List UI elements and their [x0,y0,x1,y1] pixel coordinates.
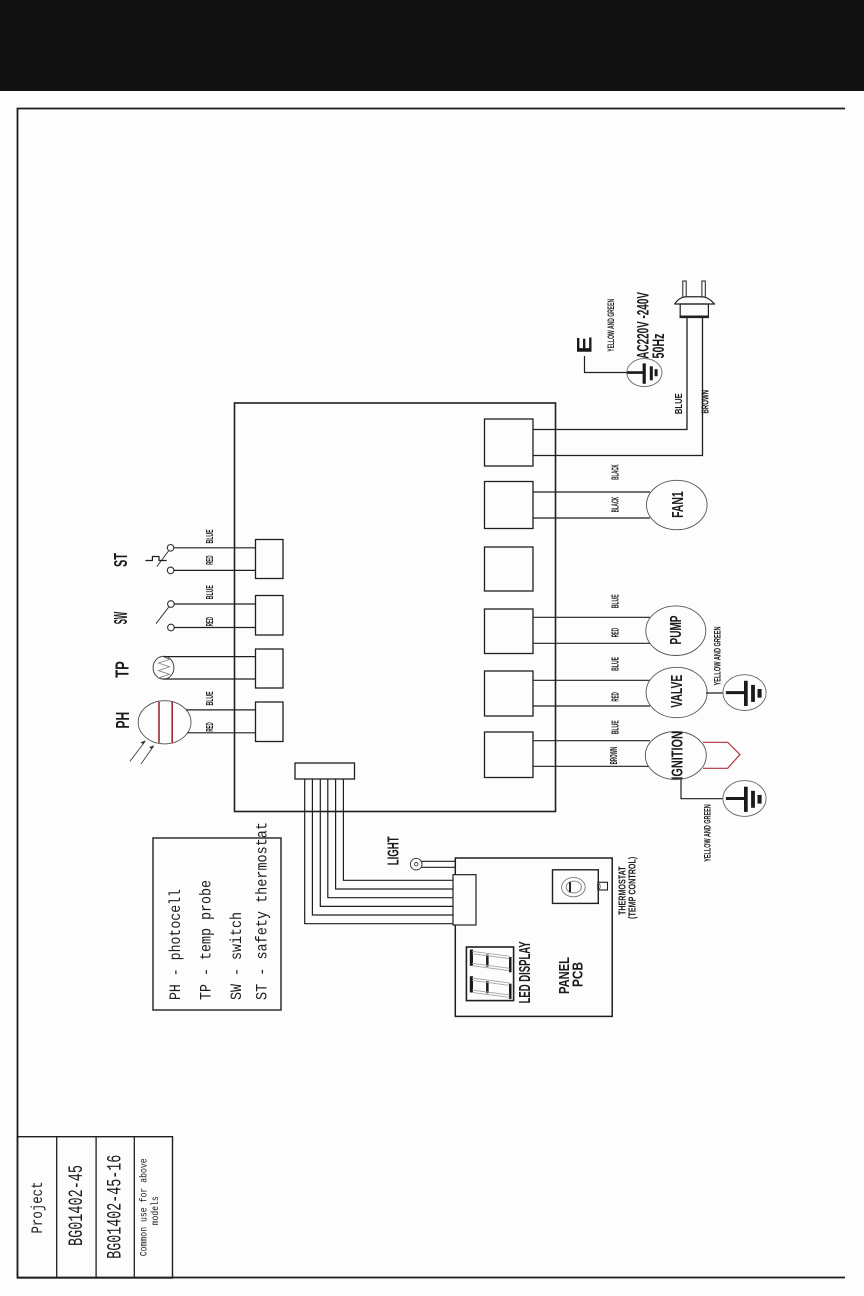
label BLUE (SW) [205,585,216,599]
label PANEL PCB [556,957,587,994]
svg-text:RED: RED [205,722,216,731]
label BLACK 2 [611,496,622,512]
connector pump [485,609,534,654]
label RED (SW) [205,617,216,626]
label BLUE (ignition) [611,720,622,734]
switch SW [156,601,174,631]
wire ignition brown [533,765,650,767]
svg-text:SW: SW [110,612,131,625]
legend text [167,822,272,1000]
photocell PH [130,701,191,764]
wire E to earth [585,356,628,373]
wire fan black 1 [533,491,650,493]
label BLUE (valve) [611,657,622,671]
label E [573,337,597,354]
connector valve [485,671,534,716]
spark electrode (red) [703,742,740,768]
label SW [110,612,131,625]
svg-text:BROWN: BROWN [609,747,620,765]
wire valve earth [706,692,724,694]
svg-text:Project: Project [29,1182,47,1234]
legend box [153,838,281,1010]
svg-text:BLACK: BLACK [611,496,622,512]
motor PUMP [646,606,706,656]
connector TP [256,649,284,688]
svg-text:E: E [573,337,597,354]
svg-text:Common use for above: Common use for above [139,1158,151,1256]
svg-text:BG01402-45-16: BG01402-45-16 [105,1155,128,1259]
label YELLOW AND GREEN (valve) [713,626,724,685]
ground ignition [723,781,766,817]
wire PH blue [186,709,256,711]
label YELLOW AND GREEN (earth) [606,299,617,352]
connector SW [256,596,284,636]
wire pump red [533,642,650,644]
wire PH red [187,732,256,734]
safety thermostat ST [145,545,174,574]
connector power [485,419,534,466]
wire valve blue [533,679,650,681]
title block table [17,1137,172,1278]
svg-text:ST - safety thermostat: ST - safety thermostat [254,822,272,1000]
wire valve red [533,705,650,707]
svg-text:YELLOW AND GREEN: YELLOW AND GREEN [713,626,724,685]
svg-text:BLUE: BLUE [205,691,216,705]
svg-text:PH: PH [112,712,133,729]
svg-text:PH - photocell: PH - photocell [167,889,185,1000]
label BLUE (pump) [611,594,622,608]
svg-text:BLUE: BLUE [205,585,216,599]
label PH [112,712,133,729]
svg-text:YELLOW AND GREEN: YELLOW AND GREEN [606,299,617,352]
wire SW blue [174,603,256,605]
svg-text:BLACK: BLACK [611,464,622,480]
connector PH [256,702,284,742]
label BLUE (PH) [205,691,216,705]
label LIGHT [385,836,402,865]
label RED (PH) [205,722,216,731]
svg-text:TP: TP [112,661,133,678]
connector panel header [295,763,355,779]
svg-text:VALVE: VALVE [669,675,686,708]
wire pump blue [533,616,650,618]
wire panel 3 [320,779,454,906]
panel connector [453,875,476,925]
svg-text:LED DISPLAY: LED DISPLAY [517,941,534,1003]
solenoid VALVE [646,667,707,717]
svg-text:BLUE: BLUE [611,720,622,734]
svg-text:BLUE: BLUE [674,393,685,414]
connector ignition [485,732,534,778]
svg-text:BLUE: BLUE [611,594,622,608]
ground valve [723,675,766,711]
label AC220V -240V [634,292,653,359]
svg-text:PUMP: PUMP [668,616,685,645]
wire light 1 [422,860,456,862]
svg-text:BG01402-45: BG01402-45 [66,1165,89,1246]
label TP [112,661,133,678]
wire ST blue [174,547,256,549]
wire panel 4 [328,779,454,898]
svg-text:(TEMP CONTROL): (TEMP CONTROL) [627,857,639,919]
label RED (ST) [205,555,216,564]
svg-text:LIGHT: LIGHT [385,836,402,865]
temp probe TP [153,656,174,679]
svg-text:IGNITION: IGNITION [670,731,687,780]
connector fan [485,482,534,529]
svg-text:BLUE: BLUE [611,657,622,671]
svg-text:BROWN: BROWN [701,390,712,414]
svg-text:50Hz: 50Hz [649,334,668,359]
igniter IGNITION [645,731,706,780]
svg-text:FAN1: FAN1 [670,491,687,518]
label BLUE (mains) [674,393,685,414]
wire panel 2 [312,779,454,915]
label BLACK 1 [611,464,622,480]
wire TP top [164,656,256,658]
wire panel 5 [336,779,454,889]
main PCB box [235,403,556,812]
wire light 2 [422,866,456,868]
label BROWN (mains) [701,390,712,414]
svg-text:RED: RED [611,628,622,637]
wire mains blue [533,317,687,430]
svg-text:BLUE: BLUE [205,529,216,543]
motor FAN1 [647,480,708,529]
svg-text:RED: RED [205,555,216,564]
wire ST red [174,569,256,571]
label BLUE (ST) [205,529,216,543]
wire ignition earth [681,779,723,799]
wire panel 6 [343,779,454,880]
mains plug [674,281,715,317]
thermostat knob [553,870,608,904]
wire panel 1 [305,779,454,924]
ground earth (mains) [627,359,662,387]
wire SW red [174,627,256,629]
svg-text:ST: ST [110,553,131,567]
label RED (valve) [611,692,622,701]
svg-text:PCB: PCB [570,962,587,987]
title block text [29,1155,162,1259]
label YELLOW AND GREEN (ignition) [703,804,714,862]
wire mains brown [533,317,703,456]
connector ST [256,540,284,579]
svg-text:RED: RED [205,617,216,626]
label 50Hz [649,334,668,359]
wire fan black 2 [533,517,650,519]
lamp LIGHT [410,858,422,870]
label ST [110,553,131,567]
connector spare [485,547,534,591]
label THERMOSTAT (TEMP CONTROL) [617,857,639,919]
label BROWN (ignition) [609,747,620,765]
label LED DISPLAY [517,941,534,1003]
label RED (pump) [611,628,622,637]
wire TP bottom [164,678,256,680]
svg-text:models: models [150,1196,162,1225]
svg-text:RED: RED [611,692,622,701]
svg-text:YELLOW AND GREEN: YELLOW AND GREEN [703,804,714,862]
svg-text:TP - temp probe: TP - temp probe [198,880,216,1000]
svg-text:SW - switch: SW - switch [228,912,246,1000]
wire ignition blue [533,740,650,742]
LED display [466,947,513,1001]
panel PCB box [455,858,612,1016]
